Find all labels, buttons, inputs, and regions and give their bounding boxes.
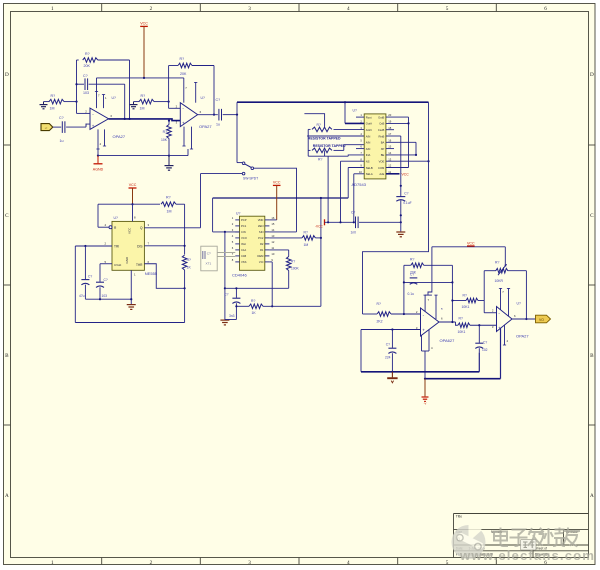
- junction: [168, 155, 170, 157]
- wire (U3 V+ pins): [424, 295, 438, 319]
- power port VCC (U3 U4): [467, 241, 475, 246]
- wire (VCC rail U3 U4): [432, 246, 505, 248]
- junction: [344, 101, 346, 103]
- junction: [235, 287, 237, 289]
- svg-text:3n3: 3n3: [229, 314, 235, 318]
- svg-text:BE: BE: [381, 153, 385, 157]
- svg-text:C?: C?: [386, 342, 390, 346]
- svg-text:1n0: 1n0: [351, 231, 357, 235]
- svg-text:R?: R?: [304, 230, 308, 234]
- junction: [424, 378, 426, 380]
- svg-text:C?: C?: [224, 293, 228, 297]
- svg-text:1: 1: [51, 560, 54, 566]
- junction: [403, 313, 405, 315]
- resistor R? 1M (op-amp U1 + input bias): [44, 94, 77, 111]
- svg-text:3: 3: [248, 6, 251, 12]
- wire (U2 inverting input): [169, 107, 181, 109]
- dac U? AD7543: [352, 108, 392, 187]
- svg-text:R?: R?: [317, 123, 321, 127]
- svg-text:U?: U?: [353, 108, 357, 112]
- wire (DAC pin13 to loop): [386, 160, 429, 162]
- wire (U4 V- pin): [503, 325, 509, 345]
- wire (cap to output): [124, 84, 126, 119]
- junction: [451, 299, 453, 301]
- pll U? CD4046: [232, 212, 275, 278]
- svg-text:D: D: [590, 72, 594, 78]
- junction: [168, 101, 170, 103]
- svg-text:ZEN: ZEN: [258, 224, 263, 228]
- wire (U3 out to U4 +): [439, 322, 458, 325]
- svg-text:1u: 1u: [60, 139, 64, 143]
- svg-text:R?: R?: [459, 316, 463, 320]
- svg-text:R2: R2: [260, 242, 264, 246]
- svg-text:+: +: [182, 120, 185, 125]
- junction: [400, 221, 402, 223]
- svg-text:R?: R?: [85, 52, 90, 56]
- wire (U1 feedback right vertical): [129, 60, 131, 119]
- svg-text:R?: R?: [251, 299, 255, 303]
- svg-text:C?: C?: [404, 192, 408, 196]
- svg-text:R?: R?: [410, 258, 414, 262]
- resistor R? 1M (U2 + input bias): [134, 94, 169, 111]
- wire (U2 V+ pin): [184, 78, 188, 103]
- junction: [184, 287, 186, 289]
- wire (DAC pin16-14 tie): [386, 142, 416, 155]
- svg-text:C?: C?: [351, 210, 355, 214]
- svg-text:BA: BA: [381, 141, 385, 145]
- svg-text:PC1: PC1: [241, 224, 247, 228]
- ground (-VCC port, rail2): [422, 397, 429, 406]
- svg-text:16: 16: [388, 138, 391, 142]
- svg-text:VCC: VCC: [128, 227, 132, 234]
- svg-text:AxE: AxE: [379, 172, 384, 176]
- svg-text:SW-SPDT: SW-SPDT: [243, 176, 258, 180]
- ground (rail): [396, 232, 405, 237]
- svg-text:SIN: SIN: [259, 230, 264, 234]
- svg-text:15: 15: [271, 222, 274, 226]
- svg-text:4: 4: [347, 560, 350, 566]
- wire (gnd stem): [391, 372, 393, 378]
- power port VCC (DAC pin11): [386, 173, 409, 177]
- svg-text:OutA: OutA: [366, 122, 372, 126]
- wire (loop filter to long wire): [320, 198, 322, 306]
- svg-text:VCC: VCC: [467, 241, 475, 245]
- svg-text:R?: R?: [318, 157, 322, 161]
- svg-text:CIN: CIN: [241, 230, 246, 234]
- resistor R? 2K2 (U3 input): [363, 302, 421, 323]
- wire (U1 pin 8): [102, 95, 107, 109]
- junction (R1 / feedback node): [75, 101, 77, 103]
- wire (CD4046 pin9 VCOin): [269, 262, 272, 306]
- svg-text:C: C: [5, 213, 9, 219]
- junction: [131, 203, 133, 205]
- wire (CD4046 ground rail): [225, 287, 289, 289]
- svg-text:R1: R1: [260, 248, 264, 252]
- svg-text:4: 4: [347, 6, 350, 12]
- svg-text:TRI: TRI: [114, 245, 119, 249]
- svg-text:INH: INH: [241, 242, 246, 246]
- wire (VCC rail op-amps): [97, 78, 184, 92]
- wire (U3 + input): [361, 329, 421, 331]
- svg-text:3: 3: [248, 560, 251, 566]
- svg-text:U?: U?: [236, 212, 240, 216]
- svg-text:11: 11: [271, 246, 274, 250]
- svg-text:5: 5: [446, 6, 449, 12]
- title block: [454, 514, 589, 558]
- wire (feedback left vertical U1): [76, 60, 78, 113]
- wire (bottom rail 1): [361, 353, 479, 372]
- wire (U3 feedback right vertical): [451, 265, 453, 322]
- svg-text:OPA27: OPA27: [516, 333, 529, 338]
- wire (U2 feedback right vertical): [213, 66, 215, 115]
- wire (to CD4046 pin3): [213, 198, 240, 232]
- svg-text:RESISTOR TAPPED: RESISTOR TAPPED: [308, 137, 341, 141]
- junction: [99, 298, 101, 300]
- svg-text:102: 102: [482, 348, 488, 352]
- junction: [478, 324, 480, 326]
- svg-text:VCI: VCI: [259, 260, 264, 264]
- wire (U3 V- pins): [422, 330, 434, 379]
- svg-text:20K: 20K: [84, 64, 91, 68]
- wire (DAC pin6 stub): [356, 148, 364, 150]
- svg-text:10K: 10K: [161, 138, 168, 142]
- ground (earth, stage ground): [165, 156, 174, 171]
- svg-text:C?: C?: [88, 274, 92, 278]
- svg-text:13: 13: [271, 234, 274, 238]
- svg-text:*: *: [441, 307, 443, 312]
- op-amp U3 OPA627: [416, 307, 455, 343]
- power port AGND (U1): [93, 156, 104, 172]
- op-amp U2 OPA27: [176, 103, 213, 129]
- ground (U2 input bias): [130, 102, 138, 109]
- svg-text:1M: 1M: [140, 107, 145, 111]
- resistor tapped R? (upper): [308, 123, 364, 132]
- junction: [400, 214, 402, 216]
- junction: [97, 155, 99, 157]
- svg-text:14: 14: [271, 228, 274, 232]
- wire (network to -vcc rail): [327, 156, 329, 222]
- junction: [143, 77, 145, 79]
- resistor R? 20K (U1 feedback): [77, 52, 130, 68]
- svg-text:+: +: [422, 328, 425, 333]
- svg-text:1: 1: [51, 6, 54, 12]
- svg-text:1K: 1K: [187, 266, 192, 270]
- svg-text:XP: XP: [381, 147, 385, 151]
- junction: [400, 185, 402, 187]
- switch SW-SPDT: [237, 162, 258, 180]
- wire (network tap to DAC pin4): [307, 135, 364, 137]
- capacitor C? 224 (U3 + to gnd): [385, 330, 396, 372]
- designator U? (U4): [517, 301, 521, 305]
- svg-text:+: +: [92, 124, 95, 129]
- wire (signal bus to DAC): [237, 101, 429, 103]
- svg-text:13: 13: [388, 157, 391, 161]
- ground (555): [127, 305, 136, 310]
- op-amp U4 OP07: [492, 307, 530, 339]
- wire (U3 feedback left vertical): [403, 265, 405, 314]
- resistor R? 20K (U2 feedback): [169, 57, 214, 76]
- svg-text:VSS: VSS: [241, 260, 247, 264]
- svg-text:10KR: 10KR: [495, 279, 504, 283]
- svg-text:NS: NS: [366, 160, 370, 164]
- wire (U1 V- pins): [96, 129, 106, 155]
- svg-text:CVolt: CVolt: [114, 263, 121, 267]
- svg-text:U?: U?: [201, 96, 205, 100]
- svg-text:1M: 1M: [167, 209, 172, 213]
- junction: [213, 114, 215, 116]
- label RESISTOR TAPPED (upper): [308, 137, 341, 141]
- svg-text:U?: U?: [517, 301, 521, 305]
- resistor R? 100K (CD4046 R1): [269, 250, 299, 288]
- wire (555 ground rail): [85, 298, 131, 300]
- resistor R? 10K1 (U4 + input): [458, 316, 497, 334]
- label RESISTOR TAPPED (lower): [313, 144, 346, 148]
- timer U? NE555: [105, 216, 158, 277]
- svg-text:AIN: AIN: [366, 141, 371, 145]
- svg-text:R?: R?: [166, 196, 171, 200]
- power port VCC (CD4046): [273, 181, 281, 220]
- svg-text:VCC: VCC: [129, 183, 137, 187]
- svg-text:OPA627: OPA627: [440, 338, 456, 343]
- svg-text:PCP: PCP: [241, 218, 247, 222]
- svg-text:10K1: 10K1: [458, 330, 466, 334]
- svg-text:DIS: DIS: [137, 245, 142, 249]
- wire (U1 inverting input): [77, 112, 91, 114]
- ground (bottom rail 1): [387, 378, 397, 383]
- svg-text:A: A: [590, 493, 594, 499]
- svg-text:R?: R?: [377, 302, 381, 306]
- svg-text:XT1: XT1: [206, 262, 212, 266]
- power port -VCC: [315, 219, 324, 228]
- junction: [168, 120, 170, 122]
- svg-text:AGN: AGN: [366, 128, 372, 132]
- capacitor C1 1u (input coupling): [53, 116, 86, 143]
- svg-text:C1B: C1B: [241, 254, 246, 258]
- svg-text:CD4046: CD4046: [232, 273, 247, 278]
- svg-text:0.1uF: 0.1uF: [403, 201, 411, 205]
- svg-text:12: 12: [271, 240, 274, 244]
- wire (U3 V+ to VCC rail): [425, 247, 432, 295]
- svg-text:CsxB: CsxB: [378, 128, 385, 132]
- wire (U1 output to U2 +): [109, 119, 181, 121]
- op-amp U1 OPA27: [85, 108, 126, 139]
- junction: [391, 328, 393, 330]
- junction: [407, 122, 409, 124]
- svg-text:PC2: PC2: [258, 236, 264, 240]
- junction: [271, 305, 273, 307]
- wire (555 pin 2 TRI): [75, 246, 112, 323]
- junction: [124, 118, 126, 120]
- wire (network bottom): [308, 150, 364, 156]
- junction: [320, 237, 322, 239]
- wire (-VCC rail): [325, 221, 401, 223]
- wire (DAC pin20-19-12 tie): [386, 117, 409, 167]
- svg-text:DEM: DEM: [257, 254, 264, 258]
- wire (555 pin 8 VCC): [132, 204, 134, 221]
- resistor R? 1K (555 discharge): [182, 255, 191, 288]
- svg-text:VO: VO: [539, 318, 544, 322]
- svg-text:20K: 20K: [180, 72, 187, 76]
- svg-text:C?: C?: [216, 98, 221, 102]
- svg-text:103: 103: [83, 91, 89, 95]
- junction: [327, 221, 329, 223]
- wire (555 top rail): [98, 203, 160, 205]
- svg-text:2: 2: [150, 6, 153, 12]
- svg-text:Title: Title: [456, 515, 462, 519]
- wire (555 pin 6 THR loop): [144, 264, 184, 289]
- wire (555 pin 3 Q): [144, 227, 200, 229]
- resistor tapped R? (lower): [308, 145, 364, 162]
- capacitor C? 47u (555 timing): [79, 246, 92, 299]
- svg-text:12: 12: [388, 164, 391, 168]
- wire (switch to NE555 out): [201, 174, 243, 228]
- svg-text:0.1u: 0.1u: [408, 292, 415, 296]
- svg-text:10: 10: [271, 252, 274, 256]
- wire (DAC pin10): [354, 174, 364, 223]
- junction: [128, 118, 130, 120]
- junction: [525, 318, 527, 320]
- wire (DAC pin1 stub): [356, 116, 364, 118]
- wire (network top tap): [304, 114, 324, 127]
- svg-text:R?: R?: [51, 94, 56, 98]
- svg-text:1M: 1M: [304, 243, 309, 247]
- svg-text:AIN: AIN: [366, 147, 371, 151]
- svg-text:OPA27: OPA27: [199, 124, 212, 129]
- wire (divider input long wire): [213, 197, 349, 199]
- svg-text:B: B: [5, 353, 9, 359]
- power port VCC (op-amp rail): [140, 22, 148, 78]
- junction: [235, 305, 237, 307]
- svg-text:U?: U?: [114, 216, 118, 220]
- svg-text:D: D: [5, 72, 9, 78]
- svg-text:C?: C?: [83, 74, 88, 78]
- svg-text:C?: C?: [483, 340, 487, 344]
- wire (U2 V- pins): [169, 127, 193, 156]
- wire (DAC pin18 stub): [386, 129, 394, 131]
- designator U? (U1): [112, 96, 116, 100]
- svg-text:R?: R?: [291, 259, 295, 263]
- junction: [451, 321, 453, 323]
- wire (rail2 ground stem): [424, 379, 426, 397]
- wire (to U1 + input): [86, 124, 90, 127]
- svg-text:2K2: 2K2: [377, 320, 383, 324]
- svg-text:COM: COM: [378, 166, 385, 170]
- resistor R? 10K1 (U4 - input): [452, 293, 484, 309]
- junction: [130, 298, 132, 300]
- wire (555 bottom rail): [75, 322, 184, 324]
- junction: [224, 231, 226, 233]
- svg-text:100K: 100K: [291, 267, 300, 271]
- capacitor C? 0.1u (U3 feedback): [404, 272, 453, 296]
- svg-text:RinB: RinB: [378, 134, 384, 138]
- ground (input R1 bias): [40, 102, 48, 109]
- capacitor C? 1n (rail series): [351, 210, 359, 234]
- svg-text:VOE: VOE: [379, 160, 385, 164]
- wire (CD4046 pin14 SIGin): [269, 231, 296, 233]
- crystal box (CD4046 osc): [201, 246, 236, 271]
- port VO (output): [536, 315, 551, 323]
- capacitor C? 0.1uF (ref bypass): [396, 192, 411, 205]
- wire (bottom rail 2): [425, 328, 501, 378]
- svg-text:C?: C?: [410, 272, 414, 276]
- svg-text:47u: 47u: [79, 294, 85, 298]
- wire (U2 pin 8): [194, 82, 197, 102]
- svg-text:224: 224: [385, 356, 391, 360]
- junction: [236, 114, 238, 116]
- wire (555 pin 1 GND): [130, 270, 132, 304]
- wire (VCC drop to pot wiper): [504, 247, 506, 265]
- svg-text:19: 19: [388, 120, 391, 124]
- svg-text:B: B: [590, 353, 594, 359]
- svg-text:R?: R?: [495, 260, 499, 264]
- wire (network left vertical): [307, 129, 309, 156]
- junction: [353, 221, 355, 223]
- junction: [320, 197, 322, 199]
- wire (DAC output loop to U3): [363, 102, 429, 314]
- svg-text:VCO: VCO: [241, 236, 247, 240]
- wire (R right vertical): [184, 204, 186, 254]
- svg-text:A: A: [5, 493, 9, 499]
- junction: [339, 221, 341, 223]
- capacitor C? 102 (U4 + to rail): [475, 325, 487, 352]
- svg-text:U?: U?: [112, 96, 116, 100]
- svg-text:R?: R?: [187, 258, 191, 262]
- junction: [184, 245, 186, 247]
- svg-text:AIN: AIN: [366, 134, 371, 138]
- svg-text:OPA27: OPA27: [113, 134, 126, 139]
- svg-text:10: 10: [359, 170, 362, 174]
- wire (555 pin 7 DIS): [144, 245, 184, 247]
- wire (U4 V+ pins): [499, 288, 510, 316]
- watermark elecfans logo and text: [452, 525, 596, 563]
- wire (rail down to pin4): [98, 204, 109, 227]
- wire (signal vertical to switch): [236, 102, 238, 162]
- svg-text:103: 103: [102, 294, 108, 298]
- svg-text:C?: C?: [104, 278, 108, 282]
- wire (DAC pin9 to long wire): [348, 168, 364, 199]
- capacitor C? 103 (555 CV bypass): [96, 264, 112, 299]
- svg-text:VCC: VCC: [140, 22, 148, 26]
- svg-text:THR: THR: [136, 263, 143, 267]
- resistor R? 1K (loop filter): [236, 299, 321, 315]
- svg-text:16: 16: [271, 216, 274, 220]
- svg-text:C?: C?: [59, 116, 64, 120]
- svg-text:14: 14: [388, 151, 391, 155]
- svg-text:SELB: SELB: [366, 166, 373, 170]
- junction: [84, 245, 86, 247]
- svg-text:C: C: [590, 213, 594, 219]
- svg-text:INA: INA: [366, 153, 371, 157]
- svg-text:6: 6: [544, 6, 547, 12]
- wire (U4 feedback right vertical): [525, 271, 527, 319]
- wire (DAC pin8): [341, 161, 365, 222]
- potentiometer R? 10KR (U4 feedback): [484, 260, 526, 282]
- junction: [75, 83, 77, 85]
- wire (CD4046 pin16 VDD): [269, 219, 276, 221]
- svg-text:R?: R?: [180, 57, 185, 61]
- svg-text:AGND: AGND: [93, 168, 104, 172]
- svg-text:R?: R?: [163, 130, 167, 134]
- svg-text:www.elecfans.com: www.elecfans.com: [459, 548, 595, 563]
- ground (CD4046): [220, 320, 229, 325]
- svg-text:2: 2: [150, 560, 153, 566]
- svg-text:20: 20: [388, 113, 391, 117]
- svg-text:VDD: VDD: [258, 218, 264, 222]
- capacitor C? 103 (U1 feedback): [77, 74, 125, 95]
- svg-text:+: +: [498, 325, 501, 330]
- junction: [391, 371, 393, 373]
- power port VCC (555): [129, 183, 137, 204]
